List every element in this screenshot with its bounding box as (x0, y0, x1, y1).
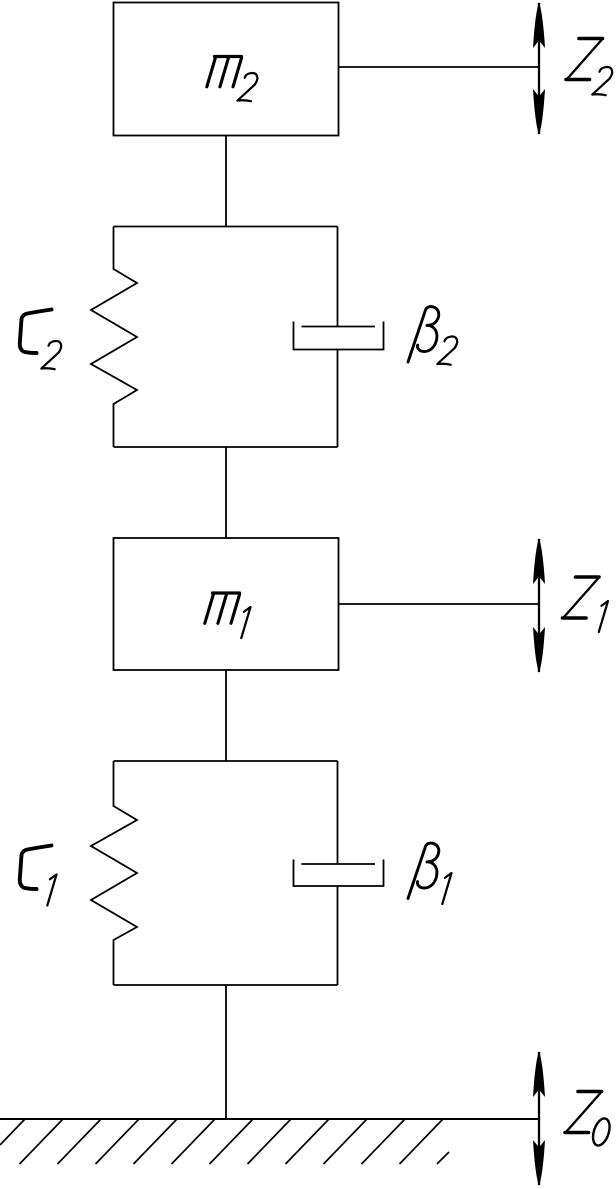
upper suspension frame top line (114, 226, 338, 228)
damper beta1 rod lower (337, 886, 339, 985)
ground line (0, 1118, 538, 1120)
spring C1 (91, 761, 137, 985)
mass m1 box (114, 538, 339, 670)
label m2 (207, 57, 258, 102)
lower suspension frame top line (114, 760, 338, 762)
wire upper suspension to m1 (225, 447, 227, 538)
damper beta2 rod lower (337, 350, 339, 448)
label C2 (20, 310, 61, 370)
wire m1 to lower suspension (225, 670, 227, 761)
measurement line Z1 (339, 603, 540, 605)
upper suspension frame bottom line (114, 446, 338, 448)
damper beta2 cup (294, 322, 384, 350)
damper beta1 cup (294, 860, 384, 887)
lower suspension frame bottom line (114, 984, 338, 986)
arrow Z2 (533, 2, 545, 135)
damper beta1 rod upper (337, 761, 339, 864)
short hatch stub (437, 1152, 449, 1164)
label beta1 (408, 843, 452, 904)
damper beta2 rod upper (337, 227, 339, 327)
damper beta2 piston (302, 326, 376, 328)
arrow Z1 (533, 538, 545, 673)
spring C2 (91, 227, 137, 448)
label Z0 (565, 1092, 613, 1148)
damper beta1 piston (302, 863, 376, 865)
label beta2 (408, 307, 457, 365)
label Z2 (566, 39, 612, 96)
ground hatching (0, 1119, 449, 1164)
measurement line Z2 (339, 66, 540, 68)
mass m2 box (114, 3, 339, 136)
arrow Z0 (533, 1051, 545, 1186)
label C1 (20, 846, 57, 906)
wire lower suspension to ground (225, 985, 227, 1119)
label Z1 (563, 577, 609, 632)
wire m2 to upper suspension (225, 136, 227, 227)
label m1 (205, 593, 251, 638)
